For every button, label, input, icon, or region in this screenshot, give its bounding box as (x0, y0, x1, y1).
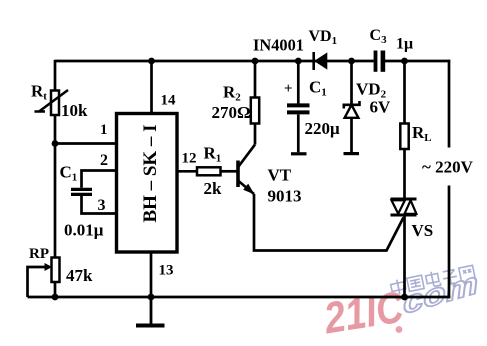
wire pin 2 (82, 171, 117, 188)
svg-text:~ 220V: ~ 220V (422, 158, 474, 177)
svg-text:12: 12 (182, 151, 197, 167)
wire pin 12 (177, 170, 197, 173)
wire top rail right of C3 (385, 60, 450, 63)
wire left rail middle (54, 115, 57, 258)
wire pin 1 (55, 142, 116, 145)
wire RL top (403, 61, 406, 124)
wire VD2 top (350, 61, 353, 104)
junction node pin13 bottom rail (148, 294, 155, 301)
wire left rail lower (54, 282, 57, 297)
resistor RL body (400, 124, 408, 150)
main circuit strokes (28, 60, 451, 298)
svg-text:2: 2 (100, 152, 108, 169)
svg-text:C1: C1 (60, 163, 78, 184)
wire R1 to base (221, 170, 237, 173)
wire top rail (55, 60, 374, 63)
svg-text:com: com (401, 266, 479, 321)
wire R2 bottom to collector (254, 124, 257, 145)
svg-text:2k: 2k (204, 179, 223, 198)
wire RP wiper left drop (28, 267, 49, 297)
potentiometer RP body (45, 258, 60, 283)
wire R2 top (254, 61, 257, 98)
svg-text:VT: VT (268, 166, 292, 185)
svg-text:C1: C1 (309, 78, 327, 99)
svg-text:RL: RL (412, 123, 432, 144)
svg-text:9013: 9013 (268, 187, 302, 206)
junction node VS bottom rail (401, 294, 408, 301)
wire right branch lower (448, 186, 451, 299)
svg-text:R1: R1 (204, 144, 222, 165)
wire VD2 bottom (350, 118, 353, 152)
triac VS (391, 199, 417, 215)
svg-text:C3: C3 (370, 27, 388, 46)
IC U1 BH-SK-I box (117, 114, 178, 253)
watermark 21IC (320, 282, 408, 343)
svg-text:220μ: 220μ (305, 119, 341, 138)
wire pin 13 (150, 252, 153, 297)
svg-text:BH – SK – I: BH – SK – I (140, 125, 161, 223)
watermark .com (401, 266, 479, 321)
junction node pin14 top rail (148, 58, 155, 65)
svg-text:IN4001: IN4001 (253, 36, 304, 55)
junction node R2 top rail (252, 58, 259, 65)
svg-text:270Ω: 270Ω (212, 103, 251, 122)
svg-text:47k: 47k (66, 266, 93, 285)
resistor R2 body (251, 98, 259, 124)
wire right branch upper (448, 60, 451, 148)
watermark 中国电子网 (390, 263, 476, 295)
svg-text:RP: RP (29, 246, 49, 262)
ground bar under VD2 (344, 152, 360, 155)
wire pin 14 (150, 61, 153, 114)
svg-text:14: 14 (161, 93, 177, 109)
ground bar under C1 (291, 152, 307, 155)
wire C1 electrolytic top (297, 61, 300, 104)
wire bottom rail (28, 296, 451, 299)
junction node RL top rail (401, 58, 408, 65)
svg-text:1: 1 (100, 122, 108, 138)
resistor R1 body (197, 167, 221, 175)
wire RL to triac (403, 149, 406, 199)
svg-text:Rt: Rt (31, 82, 47, 103)
watermark dot (396, 326, 403, 333)
wire pin 3 (82, 196, 117, 214)
diode VD1 IN4001 (314, 52, 327, 70)
svg-text:+: + (284, 81, 293, 97)
capacitor C1 220u electrolytic plates (287, 105, 310, 112)
svg-text:13: 13 (159, 263, 174, 279)
junction node C1 top rail (295, 58, 302, 65)
svg-text:0.01μ: 0.01μ (64, 221, 104, 240)
junction node RP bottom rail (52, 294, 59, 301)
junction node VD2 top rail (348, 58, 355, 65)
svg-text:1μ: 1μ (396, 36, 413, 53)
zener diode VD2 (344, 101, 360, 118)
svg-text:VD1: VD1 (309, 28, 338, 47)
wire C1 electrolytic bottom (297, 115, 300, 153)
svg-text:VS: VS (412, 221, 434, 240)
svg-text:6V: 6V (370, 98, 392, 117)
svg-text:3: 3 (98, 197, 106, 214)
ground symbol main (136, 297, 165, 326)
wire triac to bottom (403, 216, 406, 298)
wire left rail upper (54, 60, 57, 91)
svg-text:R2: R2 (223, 83, 241, 104)
wire emitter run to gate (254, 194, 404, 251)
junction node Rt pin1 (52, 140, 59, 147)
thermistor Rt body (35, 90, 69, 115)
transistor VT 9013 (238, 145, 255, 195)
capacitor C1 0.01u plates (71, 189, 92, 194)
svg-text:10k: 10k (61, 101, 88, 120)
capacitor C3 plates (374, 51, 386, 72)
